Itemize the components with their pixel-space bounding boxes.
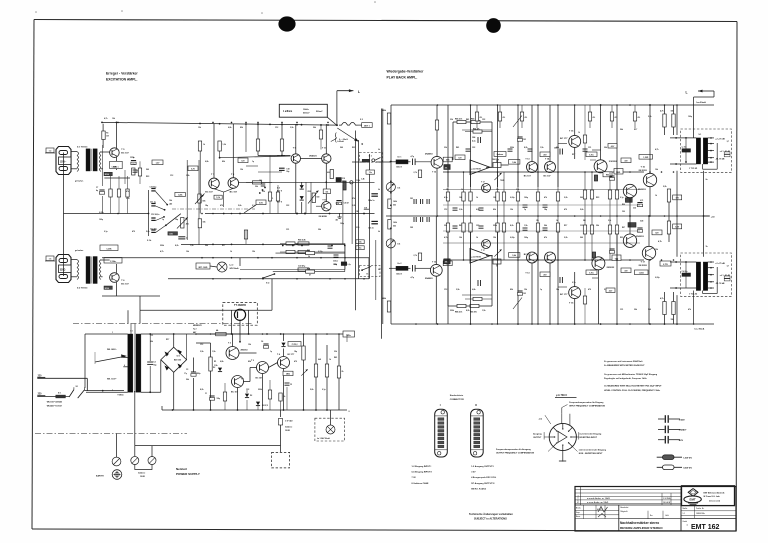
svg-text:50µ: 50µ xyxy=(154,365,157,367)
svg-text:Ue 2: Ue 2 xyxy=(397,263,401,265)
svg-text:15k: 15k xyxy=(671,111,674,113)
svg-text:POWER SUPPLY: POWER SUPPLY xyxy=(176,472,200,476)
svg-text:220k: 220k xyxy=(160,245,164,247)
svg-text:R17: R17 xyxy=(166,339,169,341)
svg-text:5,2Vx: 5,2Vx xyxy=(589,155,593,157)
svg-text:OUTPUT FREQUENCY COMPENSATION: OUTPUT FREQUENCY COMPENSATION xyxy=(496,451,535,454)
svg-text:3,9k: 3,9k xyxy=(200,351,204,353)
svg-text:1µ 16x: 1µ 16x xyxy=(682,147,687,149)
svg-text:REVERB AMPLIFIER STEREO: REVERB AMPLIFIER STEREO xyxy=(620,526,663,530)
svg-text:100µ: 100µ xyxy=(217,398,221,400)
svg-text:0,22µ: 0,22µ xyxy=(510,237,515,239)
svg-text:C31: C31 xyxy=(580,225,583,227)
svg-text:C12: C12 xyxy=(275,127,278,129)
svg-text:C31: C31 xyxy=(620,309,623,311)
svg-text:BC 107: BC 107 xyxy=(121,283,129,285)
svg-text:7 0V: 7 0V xyxy=(412,477,417,479)
svg-text:0,5W 5%: 0,5W 5% xyxy=(683,468,692,470)
svg-text:R17: R17 xyxy=(222,245,225,247)
svg-text:1k: 1k xyxy=(329,359,331,361)
svg-text:Ausgang: Ausgang xyxy=(533,432,542,435)
svg-text:=L 1 -45 dB: =L 1 -45 dB xyxy=(720,150,731,153)
svg-text:6,8k: 6,8k xyxy=(472,289,476,291)
svg-text:10k: 10k xyxy=(169,200,172,202)
svg-text:6k8: 6k8 xyxy=(318,359,321,361)
svg-text:DET 1: DET 1 xyxy=(364,125,371,127)
svg-text:2N4083: 2N4083 xyxy=(425,277,433,280)
svg-text:3,9k: 3,9k xyxy=(459,209,463,211)
svg-text:8,2k: 8,2k xyxy=(200,389,204,391)
svg-text:90p: 90p xyxy=(286,171,289,173)
svg-text:BC 107: BC 107 xyxy=(205,192,213,194)
svg-text:0,5E: 0,5E xyxy=(640,221,643,223)
svg-text:5,7: 5,7 xyxy=(727,141,729,143)
svg-text:Nachhallverstärker stereo: Nachhallverstärker stereo xyxy=(620,521,659,525)
svg-text:1,25Ω: 1,25Ω xyxy=(639,273,644,275)
svg-text:160k: 160k xyxy=(393,201,397,203)
svg-text:W. Franz K.G. Lahr: W. Franz K.G. Lahr xyxy=(704,495,721,498)
svg-text:R68 4,7k: R68 4,7k xyxy=(455,118,462,121)
svg-text:WK. 240V~: WK. 240V~ xyxy=(107,348,118,351)
svg-text:C7: C7 xyxy=(96,187,98,189)
svg-text:Bearb.: Bearb. xyxy=(576,508,582,510)
svg-text:162/001 Bla: 162/001 Bla xyxy=(696,513,705,515)
svg-text:a zuzu Änder. an 10kΩ: a zuzu Änder. an 10kΩ xyxy=(587,501,609,504)
svg-text:30k: 30k xyxy=(255,186,258,188)
svg-text:100mV: 100mV xyxy=(396,167,403,169)
svg-text:15k: 15k xyxy=(671,319,674,321)
svg-text:220k: 220k xyxy=(493,225,497,227)
svg-text:R1: R1 xyxy=(106,133,108,135)
svg-text:39k: 39k xyxy=(318,229,321,231)
svg-text:X/24V: X/24V xyxy=(679,418,685,421)
svg-text:30k: 30k xyxy=(445,167,448,169)
svg-text:BC 177: BC 177 xyxy=(560,138,568,140)
svg-text:1 S VD2: 1 S VD2 xyxy=(285,421,293,423)
svg-text:4,7µ: 4,7µ xyxy=(411,155,415,158)
svg-text:10k: 10k xyxy=(459,237,462,239)
svg-text:R52: R52 xyxy=(308,191,311,193)
svg-text:7,28k: 7,28k xyxy=(169,234,173,236)
svg-text:2k: 2k xyxy=(342,371,344,373)
svg-text:10k: 10k xyxy=(397,244,400,246)
svg-text:T1K14: T1K14 xyxy=(117,394,124,397)
svg-text:R64 47k: R64 47k xyxy=(473,127,479,130)
svg-text:C85: C85 xyxy=(523,139,526,141)
svg-text:C22: C22 xyxy=(476,225,479,227)
svg-text:560: 560 xyxy=(648,309,651,311)
svg-text:8,2k: 8,2k xyxy=(175,245,179,247)
svg-text:Norm: Norm xyxy=(576,516,581,518)
svg-text:8 Gehäuse CASE: 8 Gehäuse CASE xyxy=(412,482,429,485)
svg-text:-52 -78 dB: -52 -78 dB xyxy=(715,283,725,285)
svg-text:S1: S1 xyxy=(76,386,78,388)
svg-text:1µ: 1µ xyxy=(540,289,542,291)
svg-text:R96: R96 xyxy=(622,204,625,206)
svg-text:15k: 15k xyxy=(493,237,496,239)
svg-text:4,7k: 4,7k xyxy=(655,148,659,151)
svg-text:B2V: B2V xyxy=(679,440,684,442)
svg-text:0,1µ: 0,1µ xyxy=(322,389,326,391)
svg-text:WK. 110V~: WK. 110V~ xyxy=(107,378,118,380)
svg-text:C85: C85 xyxy=(523,293,526,295)
svg-text:2500µ: 2500µ xyxy=(196,373,201,375)
svg-text:1k: 1k xyxy=(476,197,478,199)
svg-text:5:1: 5:1 xyxy=(130,331,133,333)
svg-text:C81: C81 xyxy=(410,198,413,200)
svg-text:Goldene: Goldene xyxy=(285,427,292,429)
svg-text:680k: 680k xyxy=(382,110,386,112)
svg-text:220k: 220k xyxy=(258,389,262,391)
svg-text:56k: 56k xyxy=(205,245,208,247)
svg-text:12k: 12k xyxy=(240,169,243,171)
svg-text:C84: C84 xyxy=(472,136,475,139)
svg-text:1-2 Ausgang OUTPUT I: 1-2 Ausgang OUTPUT I xyxy=(471,465,494,468)
svg-text:1.12 W.A: 1.12 W.A xyxy=(663,497,671,500)
svg-text:500mV: 500mV xyxy=(316,111,323,113)
svg-text:1,5k: 1,5k xyxy=(524,225,528,227)
svg-text:5,6k: 5,6k xyxy=(146,231,150,233)
svg-text:2,2k: 2,2k xyxy=(126,198,130,200)
svg-text:LEVEL CONTROL FULL CLOCKWISE,: LEVEL CONTROL FULL CLOCKWISE, FREQUENCY … xyxy=(604,390,660,392)
svg-text:1,1k: 1,1k xyxy=(336,203,339,205)
svg-text:I ca. 80mA: I ca. 80mA xyxy=(694,328,705,331)
svg-text:0,75: 0,75 xyxy=(640,200,643,202)
svg-text:12k: 12k xyxy=(198,127,201,129)
svg-text:2,2k: 2,2k xyxy=(352,205,356,207)
svg-text:L: L xyxy=(686,91,688,95)
svg-text:R23: R23 xyxy=(352,147,355,149)
svg-text:5,6k: 5,6k xyxy=(238,205,242,207)
svg-text:EMT 162: EMT 162 xyxy=(691,524,720,531)
svg-text:Frequenzkompensation für Ausga: Frequenzkompensation für Ausgang xyxy=(496,448,531,451)
svg-text:4,7k: 4,7k xyxy=(660,110,664,113)
svg-text:1,2k: 1,2k xyxy=(223,144,226,146)
svg-text:Si 1: Si 1 xyxy=(58,392,61,394)
svg-text:C12: C12 xyxy=(200,344,203,346)
svg-text:invertierender Eingang: invertierender Eingang xyxy=(580,432,603,435)
svg-text:C90: C90 xyxy=(622,211,625,213)
svg-text:2N 3053: 2N 3053 xyxy=(639,265,648,267)
svg-text:BC 107: BC 107 xyxy=(524,254,532,256)
svg-text:8/9 Rel. K1&K2: 8/9 Rel. K1&K2 xyxy=(471,488,487,490)
svg-text:15k: 15k xyxy=(252,251,255,253)
svg-text:15k: 15k xyxy=(493,197,496,199)
svg-text:15k: 15k xyxy=(132,164,135,166)
svg-text:T 17: T 17 xyxy=(481,250,485,252)
svg-text:Steckerleiste: Steckerleiste xyxy=(450,394,464,397)
svg-text:12k: 12k xyxy=(524,289,527,291)
svg-text:C22: C22 xyxy=(246,389,249,391)
svg-text:2N4921: 2N4921 xyxy=(309,154,317,157)
svg-text:R41: R41 xyxy=(334,356,337,359)
svg-text:2N3053: 2N3053 xyxy=(241,350,249,352)
svg-text:56k: 56k xyxy=(393,225,396,227)
svg-text:1k: 1k xyxy=(655,195,657,197)
svg-text:±40: ±40 xyxy=(169,203,172,206)
svg-text:0,1µ: 0,1µ xyxy=(620,197,624,199)
svg-text:8,2k: 8,2k xyxy=(510,225,514,227)
svg-text:D2: D2 xyxy=(250,395,252,397)
svg-text:Gerät: Gerät xyxy=(683,520,688,523)
svg-text:5:1 T1K13: 5:1 T1K13 xyxy=(77,147,88,149)
svg-text:1k: 1k xyxy=(230,251,232,253)
svg-text:4,7k: 4,7k xyxy=(444,236,448,239)
svg-text:1,29k: 1,29k xyxy=(106,248,112,250)
svg-text:C86 250µ: C86 250µ xyxy=(492,159,499,161)
svg-text:2,7k: 2,7k xyxy=(608,220,611,222)
svg-text:CONNECTOR: CONNECTOR xyxy=(450,399,464,401)
svg-text:0,1µ: 0,1µ xyxy=(572,282,576,284)
svg-text:C33 47µ: C33 47µ xyxy=(298,265,305,268)
svg-text:BZY 8: BZY 8 xyxy=(277,201,282,203)
svg-text:1k: 1k xyxy=(578,132,580,134)
svg-text:82k: 82k xyxy=(240,127,243,129)
svg-text:ge/sw/ws: ge/sw/ws xyxy=(75,250,83,252)
svg-text:R41: R41 xyxy=(456,146,459,149)
svg-text:C13 90p: C13 90p xyxy=(150,229,158,231)
svg-text:56k: 56k xyxy=(544,225,547,227)
svg-text:4,7µ: 4,7µ xyxy=(472,140,476,143)
svg-text:Ty 2: Ty 2 xyxy=(193,328,196,330)
svg-text:T 15: T 15 xyxy=(641,166,646,168)
svg-text:470: 470 xyxy=(294,360,297,363)
svg-text:X= MEASURED WITH METER 20kΩ/VO: X= MEASURED WITH METER 20kΩ/VOLT xyxy=(604,364,645,367)
svg-text:T 3: T 3 xyxy=(241,379,244,381)
svg-text:WK.240V~110/127: WK.240V~110/127 xyxy=(47,404,62,407)
svg-text:C12: C12 xyxy=(444,289,447,291)
svg-text:T 15: T 15 xyxy=(569,131,574,133)
svg-text:5:1: 5:1 xyxy=(699,134,702,136)
svg-text:2N 4058: 2N 4058 xyxy=(319,215,328,218)
svg-text:D3: D3 xyxy=(213,367,215,369)
svg-text:X= gemessen mit Instrument 20k: X= gemessen mit Instrument 20kΩ/Volt xyxy=(604,360,643,363)
svg-text:CA1E: CA1E xyxy=(140,475,146,478)
svg-text:2,7k: 2,7k xyxy=(414,172,417,174)
svg-text:2 N3052: 2 N3052 xyxy=(609,161,618,163)
svg-text:500mV: 500mV xyxy=(303,112,310,114)
svg-text:2N3053: 2N3053 xyxy=(636,236,644,238)
svg-text:2,2k: 2,2k xyxy=(663,186,667,188)
svg-text:BC 107: BC 107 xyxy=(256,378,264,380)
svg-text:1k5: 1k5 xyxy=(325,192,328,194)
svg-text:1-2 Eingang INPUT I: 1-2 Eingang INPUT I xyxy=(412,466,432,468)
svg-text:82k: 82k xyxy=(510,289,513,291)
svg-text:10k: 10k xyxy=(112,118,115,120)
svg-text:S 3: S 3 xyxy=(360,119,363,121)
svg-text:10k: 10k xyxy=(203,222,206,224)
svg-text:2N/4DY: 2N/4DY xyxy=(679,429,687,432)
svg-text:100µ: 100µ xyxy=(688,116,692,118)
svg-text:H52: H52 xyxy=(606,175,609,177)
svg-text:La 2: La 2 xyxy=(230,265,234,267)
svg-text:MP1 100Ω: MP1 100Ω xyxy=(199,267,208,269)
svg-text:T 15: T 15 xyxy=(569,303,574,305)
svg-text:R55 6,8k: R55 6,8k xyxy=(298,240,307,242)
svg-text:Z1 F5,2: Z1 F5,2 xyxy=(292,344,298,346)
svg-text:BC 107: BC 107 xyxy=(544,175,552,177)
svg-text:II: II xyxy=(475,403,477,407)
svg-text:BC 107: BC 107 xyxy=(121,152,129,154)
svg-text:1µ: 1µ xyxy=(270,351,272,353)
svg-text:560: 560 xyxy=(340,147,343,149)
svg-text:Gl 1: Gl 1 xyxy=(177,356,181,358)
svg-text:C31: C31 xyxy=(286,229,289,231)
svg-text:D 4: D 4 xyxy=(277,187,280,190)
svg-text:I ca.20mA: I ca.20mA xyxy=(696,101,706,104)
svg-text:3k: 3k xyxy=(308,256,310,258)
svg-text:C22: C22 xyxy=(482,119,485,121)
svg-text:C2: C2 xyxy=(154,362,156,364)
svg-text:C36a 1n: C36a 1n xyxy=(368,200,374,202)
svg-text:MERIDIYE: MERIDIYE xyxy=(193,325,202,327)
svg-text:C82: C82 xyxy=(410,227,413,229)
svg-text:7: 7 xyxy=(112,390,113,392)
svg-text:47k: 47k xyxy=(126,190,129,193)
svg-text:D2 B7,5: D2 B7,5 xyxy=(262,405,268,407)
svg-text:C12 56,2n: C12 56,2n xyxy=(151,214,159,216)
svg-text:160k: 160k xyxy=(393,222,397,224)
svg-text:+2 +75 dB: +2 +75 dB xyxy=(715,139,725,141)
svg-text:C12: C12 xyxy=(444,209,447,211)
svg-text:1 a/8mm: 1 a/8mm xyxy=(283,111,292,113)
svg-text:15k: 15k xyxy=(536,220,539,222)
svg-text:BC 177: BC 177 xyxy=(560,294,568,296)
svg-text:OUTPUT: OUTPUT xyxy=(533,437,542,439)
svg-text:ge/sw/ws: ge/sw/ws xyxy=(75,181,83,183)
svg-text:39k: 39k xyxy=(634,309,637,311)
svg-text:39k: 39k xyxy=(596,225,599,227)
svg-text:5,6k: 5,6k xyxy=(310,389,314,391)
svg-text:O= gemessen mit Millivoltmeter: O= gemessen mit Millivoltmeter TF2603 30… xyxy=(604,373,658,376)
svg-text:EXCITATION AMPL.: EXCITATION AMPL. xyxy=(106,78,137,82)
svg-text:4,7µ: 4,7µ xyxy=(411,276,415,279)
svg-text:T 17: T 17 xyxy=(641,261,646,263)
svg-text:C19: C19 xyxy=(342,178,345,180)
svg-text:1 5: 1 5 xyxy=(49,259,52,261)
svg-text:C31: C31 xyxy=(150,335,153,337)
svg-text:3 0V: 3 0V xyxy=(471,472,476,474)
svg-text:100µ: 100µ xyxy=(524,197,528,199)
svg-text:47k: 47k xyxy=(544,236,547,239)
svg-text:4.8.67: 4.8.67 xyxy=(597,508,602,511)
svg-text:680k: 680k xyxy=(382,298,386,300)
svg-text:82k: 82k xyxy=(248,361,251,363)
svg-text:4,7k: 4,7k xyxy=(104,117,108,120)
svg-text:C4: C4 xyxy=(261,340,263,343)
svg-text:R23: R23 xyxy=(146,176,149,178)
svg-text:15k: 15k xyxy=(655,249,658,251)
svg-text:C5: C5 xyxy=(290,384,292,386)
svg-text:6,8k: 6,8k xyxy=(205,161,209,163)
svg-text:R88 4,7k: R88 4,7k xyxy=(455,311,462,314)
svg-text:30k: 30k xyxy=(445,262,448,264)
svg-text:6,8k: 6,8k xyxy=(220,361,224,363)
svg-text:10k: 10k xyxy=(655,169,658,171)
svg-text:2N 3053: 2N 3053 xyxy=(639,170,648,172)
svg-text:56k: 56k xyxy=(313,127,316,129)
svg-text:39k: 39k xyxy=(150,341,153,343)
svg-text:6: 6 xyxy=(124,365,125,367)
svg-text:1:1: 1:1 xyxy=(683,513,685,515)
svg-text:1?µ: 1?µ xyxy=(184,373,187,375)
svg-text:O= MEASURED WITH MILLIVOLTMETE: O= MEASURED WITH MILLIVOLTMETER TF26 30p… xyxy=(604,385,662,388)
svg-text:11c: 11c xyxy=(359,248,362,250)
svg-text:2N52: 2N52 xyxy=(286,374,290,376)
svg-text:4 Erregerspule EXC.COIL: 4 Erregerspule EXC.COIL xyxy=(471,476,497,479)
svg-text:1k: 1k xyxy=(556,220,558,222)
svg-text:2N 4058: 2N 4058 xyxy=(277,154,286,157)
svg-text:560: 560 xyxy=(583,220,586,222)
svg-text:1/8: 1/8 xyxy=(356,211,358,213)
svg-text:9b: 9b xyxy=(378,231,380,233)
svg-text:470: 470 xyxy=(564,208,567,211)
svg-text:Erreger - Verstärker: Erreger - Verstärker xyxy=(106,72,138,76)
svg-text:5,7: 5,7 xyxy=(727,265,729,267)
svg-text:1,5W 5%: 1,5W 5% xyxy=(683,458,692,460)
svg-text:EMT: EMT xyxy=(690,498,696,502)
svg-text:Gepr.: Gepr. xyxy=(576,512,581,514)
svg-text:330Ω: 330Ω xyxy=(60,270,66,272)
svg-text:1,25k: 1,25k xyxy=(178,195,183,197)
svg-text:2,2k: 2,2k xyxy=(564,197,568,199)
svg-text:BC 107: BC 107 xyxy=(524,175,532,177)
svg-text:-52 -78 dB: -52 -78 dB xyxy=(715,159,725,161)
svg-text:1,5k: 1,5k xyxy=(482,310,486,312)
svg-text:C31: C31 xyxy=(588,147,591,149)
svg-text:C12: C12 xyxy=(170,175,173,177)
svg-text:3,9k: 3,9k xyxy=(186,175,190,177)
svg-text:C10 62p: C10 62p xyxy=(150,187,158,189)
svg-text:10k: 10k xyxy=(186,251,189,253)
svg-text:560: 560 xyxy=(580,237,583,239)
svg-text:1,5k: 1,5k xyxy=(212,351,216,353)
svg-text:=L 1 -45 dB: =L 1 -45 dB xyxy=(720,274,731,277)
svg-text:(Schwarzwald): (Schwarzwald) xyxy=(709,501,721,503)
svg-text:47k: 47k xyxy=(688,308,691,311)
svg-text:33k: 33k xyxy=(334,351,337,353)
svg-text:+2 +75 dB: +2 +75 dB xyxy=(715,263,725,265)
svg-text:TT 2N3055: TT 2N3055 xyxy=(234,304,247,307)
svg-text:56k: 56k xyxy=(556,147,559,149)
svg-text:C33: C33 xyxy=(633,208,636,210)
svg-text:C22: C22 xyxy=(286,205,289,207)
svg-text:PLAY BACK AMPL.: PLAY BACK AMPL. xyxy=(387,76,418,80)
svg-text:1,25Ω: 1,25Ω xyxy=(643,157,648,159)
svg-text:1µ: 1µ xyxy=(252,161,254,163)
svg-text:R41: R41 xyxy=(466,118,469,121)
svg-text:2N4083: 2N4083 xyxy=(425,152,433,155)
svg-text:C1: C1 xyxy=(205,393,207,395)
svg-text:2,2k: 2,2k xyxy=(564,237,568,239)
svg-text:47k: 47k xyxy=(544,196,547,199)
svg-text:5:2 T1K13: 5:2 T1K13 xyxy=(77,288,88,290)
svg-text:R97: R97 xyxy=(622,227,625,229)
svg-text:Wiedergabe-Verstärker: Wiedergabe-Verstärker xyxy=(387,70,425,74)
svg-text:Änderung: Änderung xyxy=(577,496,580,503)
svg-text:C11 1µ: C11 1µ xyxy=(150,202,156,204)
svg-text:9b: 9b xyxy=(378,149,380,151)
svg-text:31,5: 31,5 xyxy=(356,227,359,229)
svg-text:µ A 709 C: µ A 709 C xyxy=(556,394,567,397)
svg-text:470: 470 xyxy=(588,288,591,291)
svg-text:600: 600 xyxy=(327,172,330,174)
svg-text:C35or: C35or xyxy=(333,261,338,263)
svg-text:WK.110V~220/240: WK.110V~220/240 xyxy=(47,401,62,404)
svg-text:Netzteil: Netzteil xyxy=(176,467,187,471)
svg-text:12k: 12k xyxy=(510,209,513,211)
svg-text:1k: 1k xyxy=(476,237,478,239)
